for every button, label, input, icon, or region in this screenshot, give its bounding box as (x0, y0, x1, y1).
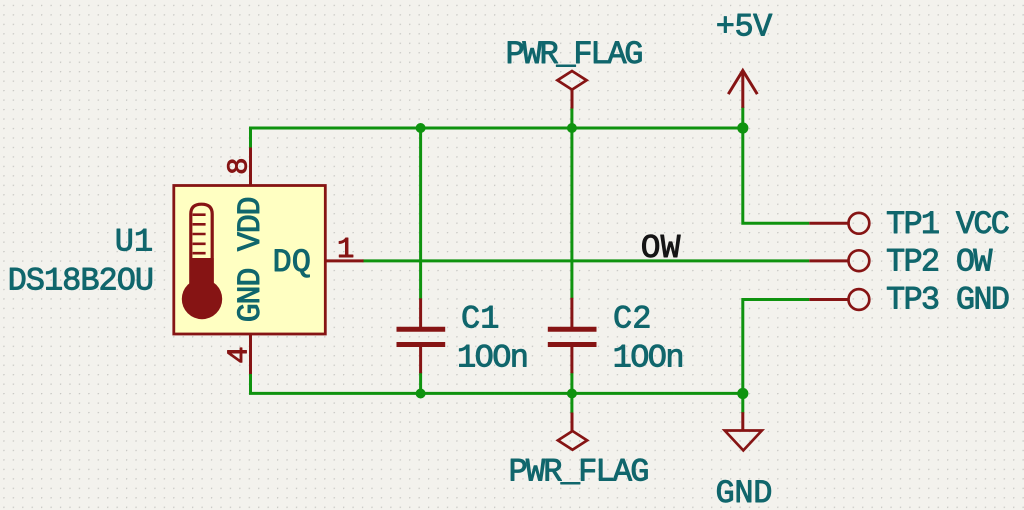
svg-text:DQ: DQ (273, 244, 311, 281)
svg-text:TP3 GND: TP3 GND (886, 282, 1010, 319)
svg-text:1OOn: 1OOn (613, 339, 685, 376)
svg-text:TP1 VCC: TP1 VCC (886, 206, 1010, 243)
svg-text:U1: U1 (115, 224, 153, 261)
svg-text:1OOn: 1OOn (457, 339, 529, 376)
svg-text:1: 1 (337, 233, 354, 266)
svg-text:C1: C1 (461, 301, 499, 338)
svg-text:+5V: +5V (716, 8, 773, 45)
svg-text:8: 8 (223, 157, 256, 174)
svg-text:C2: C2 (613, 301, 651, 338)
svg-text:GND: GND (716, 475, 773, 510)
svg-text:4: 4 (223, 346, 256, 363)
svg-text:TP2 OW: TP2 OW (886, 244, 993, 281)
svg-text:DS18B2OU: DS18B2OU (8, 262, 155, 299)
svg-text:GND VDD: GND VDD (232, 196, 269, 322)
svg-text:PWR_FLAG: PWR_FLAG (506, 36, 644, 73)
svg-text:OW: OW (641, 230, 681, 267)
svg-text:PWR_FLAG: PWR_FLAG (509, 453, 650, 490)
